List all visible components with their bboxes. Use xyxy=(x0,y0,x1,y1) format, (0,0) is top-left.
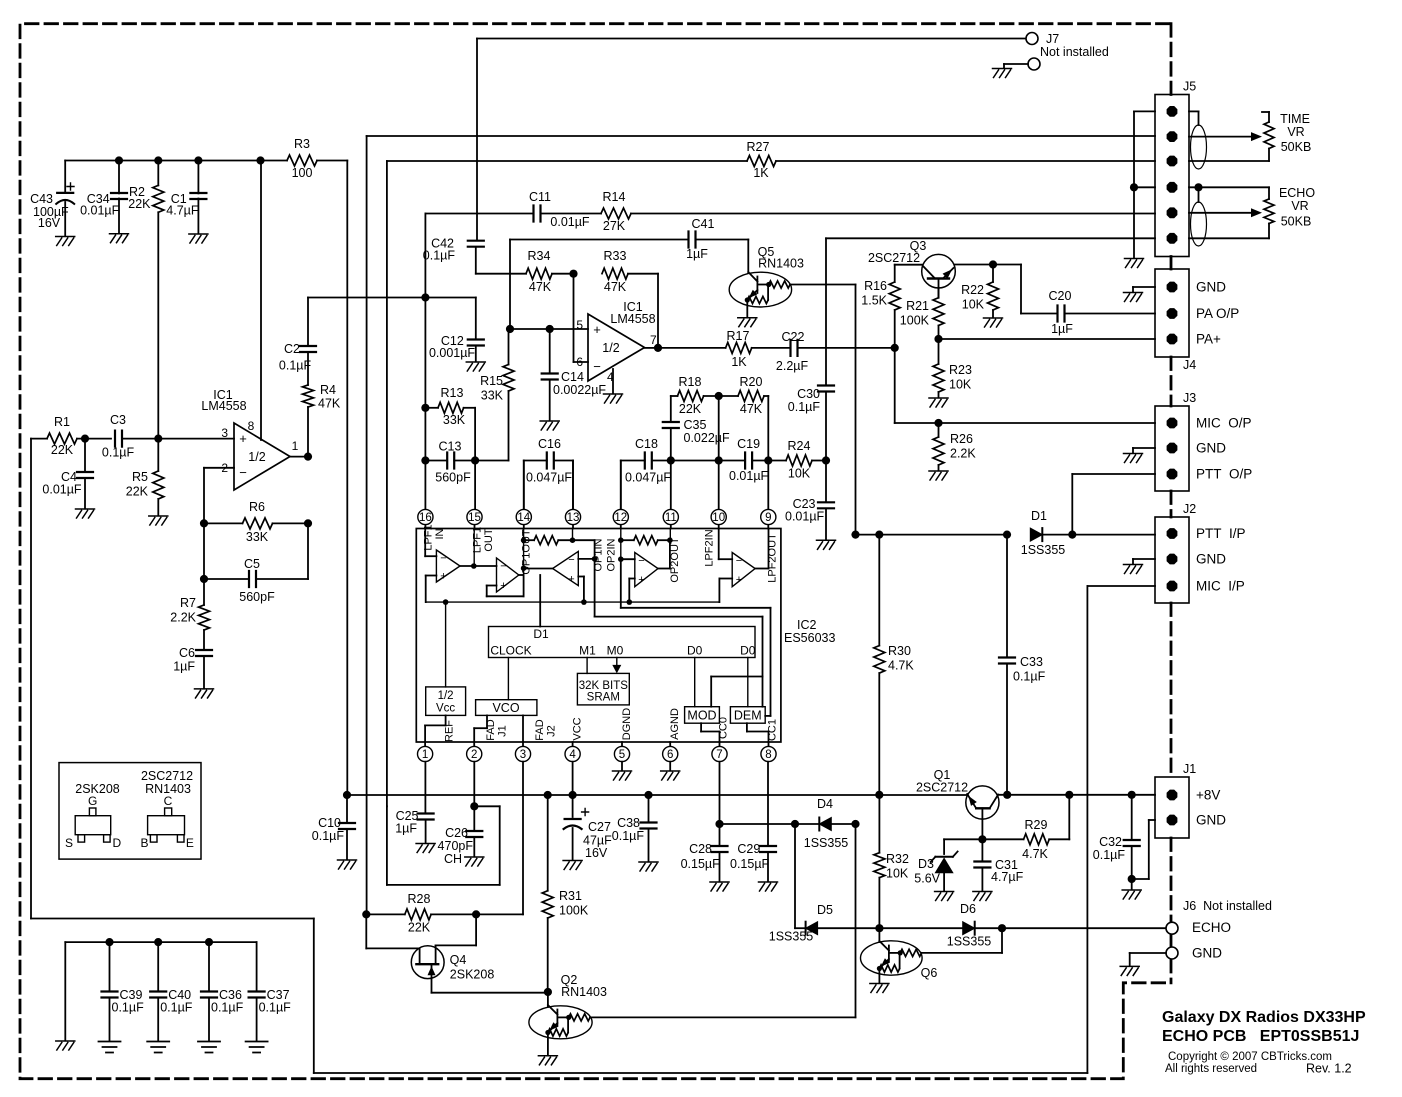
wire R22 top lead xyxy=(992,265,994,283)
junction Q5 internal base-R xyxy=(766,282,771,287)
wire C23 top lead xyxy=(825,461,827,503)
wire IC2 pin3 to R28 corner xyxy=(522,762,524,915)
svg-text:FAD: FAD xyxy=(485,719,497,740)
IC2 MOD box xyxy=(685,707,720,724)
svg-text:0.047µF: 0.047µF xyxy=(625,471,671,485)
wire node A to C12 xyxy=(425,297,475,299)
svg-text:FAD: FAD xyxy=(534,719,546,740)
wire D1 cathode lead xyxy=(1042,534,1072,536)
op-amp IC2 OP1buf triangle xyxy=(497,558,519,592)
wire J7 ground stub xyxy=(1003,64,1005,68)
svg-text:TIME: TIME xyxy=(1280,112,1310,126)
ground below C10 xyxy=(338,860,357,869)
resistor IC2 OP1 feedback xyxy=(534,536,558,545)
capacitor C14 xyxy=(542,374,558,380)
ground below Q6 xyxy=(870,984,889,993)
wire R27 left segment xyxy=(387,160,747,162)
ground below R5 xyxy=(149,516,168,525)
connector J3 pin MIC O/P xyxy=(1167,418,1178,429)
capacitor C37 0.1uF xyxy=(249,992,265,998)
svg-text:Q6: Q6 xyxy=(921,966,938,980)
svg-text:R24: R24 xyxy=(788,439,811,453)
ground below R26 xyxy=(929,471,948,480)
wire pin6 lead xyxy=(574,361,589,363)
wire D0 left to MOD xyxy=(694,658,696,707)
ground below C14 xyxy=(540,421,559,430)
wire C27 bottom lead xyxy=(572,828,574,860)
capacitor C27 (electrolytic) xyxy=(564,809,589,830)
wire J2 GND pin xyxy=(1133,558,1155,560)
resistor R26 2.2K xyxy=(933,437,944,465)
wire C42 bottom lead xyxy=(475,247,477,274)
wire to J3 PTT O/P xyxy=(1072,473,1155,475)
wire J3 GND stub xyxy=(1132,448,1134,453)
wire Q4 source to Q2 node xyxy=(432,992,548,994)
wire IC2 internal reference rail xyxy=(426,601,720,603)
wire R18/R20 junction down xyxy=(718,396,720,461)
wire C19 left lead xyxy=(719,460,745,462)
resistor R7 2.2K xyxy=(199,605,210,630)
svg-text:0.01µF: 0.01µF xyxy=(729,469,769,483)
wire J5 pin1 to ground return xyxy=(1134,110,1155,112)
svg-text:OP2OUT: OP2OUT xyxy=(669,537,681,583)
junction pin16 node / C13 xyxy=(421,456,429,464)
svg-text:C19: C19 xyxy=(737,437,760,451)
wire rail to half-Vcc box xyxy=(445,602,447,687)
wire IC2 pin1 stub xyxy=(424,742,426,746)
capacitor C43 (electrolytic) xyxy=(56,183,74,204)
wire IC2 pin4 stub xyxy=(572,742,574,746)
chassis ground bottom-left xyxy=(56,1041,75,1050)
wire C29 bottom lead xyxy=(767,852,769,881)
wire D4 line from pin7 xyxy=(720,823,820,825)
wire R28 right lead xyxy=(431,913,476,915)
junction +8V/R29 xyxy=(1065,791,1073,799)
wire Q2 emitter to ground xyxy=(547,1033,549,1055)
svg-text:1µF: 1µF xyxy=(395,822,417,836)
wire C22 to node xyxy=(798,347,895,349)
svg-text:GND: GND xyxy=(1196,552,1226,567)
wire R23 bottom lead xyxy=(938,392,940,397)
wire cable entry 2 xyxy=(1198,187,1200,202)
wire R18 left lead xyxy=(671,395,678,397)
ground below IC1b pin4 xyxy=(604,394,623,403)
resistor Q6 internal BE resistor xyxy=(879,965,899,972)
wire Q3 base to R21 xyxy=(938,288,940,298)
wire PTT O/P link xyxy=(1071,474,1073,535)
svg-text:0.1µF: 0.1µF xyxy=(423,249,456,263)
svg-text:15: 15 xyxy=(468,512,481,524)
wire IC2 pin8 stub xyxy=(768,742,770,746)
earth ground below C40 xyxy=(147,1042,169,1053)
wire J5 pin4 to ECHO top xyxy=(1189,186,1269,188)
wire R5 bottom lead xyxy=(157,499,159,515)
capacitor C34 xyxy=(111,193,127,199)
wire IC2 pin1 to C25 xyxy=(424,762,426,814)
ground below C6 xyxy=(195,689,214,698)
svg-text:22K: 22K xyxy=(128,197,151,211)
svg-text:B: B xyxy=(140,836,148,850)
wire C28 top lead xyxy=(719,824,721,846)
connector J7 pin circle xyxy=(1026,33,1038,45)
wire C32 top lead xyxy=(1131,795,1133,840)
earth ground below C37 xyxy=(246,1042,268,1053)
svg-text:AGND: AGND xyxy=(669,708,681,740)
IC2 pin 14 xyxy=(516,509,531,524)
svg-text:LPF1: LPF1 xyxy=(423,524,435,550)
wire C31 top lead xyxy=(981,839,983,861)
op-amp IC2 LPF2 triangle xyxy=(732,553,755,587)
ground below Q5 xyxy=(738,318,757,327)
wire PTT line xyxy=(856,534,1008,536)
wire C20 to J4 PA O/P xyxy=(1065,313,1156,315)
junction D4 anode / PTT net xyxy=(851,820,859,828)
svg-text:0.01µF: 0.01µF xyxy=(785,510,825,524)
cable group symbol (ECHO) xyxy=(1191,202,1207,246)
svg-text:R15: R15 xyxy=(480,374,503,388)
IC2 ES56033 body xyxy=(416,529,781,743)
connector J5 pin xyxy=(1167,106,1178,117)
transistor Q5 emitter arrow xyxy=(749,290,758,299)
svg-text:R22: R22 xyxy=(961,283,984,297)
wire to C20 xyxy=(1021,313,1058,315)
capacitor C41 1uF xyxy=(689,232,696,248)
svg-text:Rev. 1.2: Rev. 1.2 xyxy=(1306,1062,1352,1076)
wire Q6 internal link xyxy=(899,953,901,969)
wire OP2 output to pin11 xyxy=(658,540,670,568)
resistor Q6 internal base resistor xyxy=(900,949,921,956)
svg-text:C22: C22 xyxy=(782,330,805,344)
svg-text:J6 Not installed: J6 Not installed xyxy=(1183,899,1272,913)
ground below C25 xyxy=(416,844,435,853)
svg-text:R14: R14 xyxy=(603,190,626,204)
svg-text:Not installed: Not installed xyxy=(1040,45,1109,59)
ground below C38 xyxy=(639,862,658,871)
junction C22/R16/MIC-OP xyxy=(891,344,899,352)
wire Q3 emitter to R22 node xyxy=(955,264,993,266)
connector J2 pin MIC I/P xyxy=(1167,581,1178,592)
wire IC2 pin15 internal xyxy=(473,529,475,567)
svg-text:R29: R29 xyxy=(1025,818,1048,832)
op-amp IC1a triangle xyxy=(234,423,290,490)
junction C18/C35/pin11 xyxy=(667,456,675,464)
legend box (package pinouts) xyxy=(59,763,201,860)
junction +8V rail / C1 xyxy=(194,156,202,164)
wire J5 ground return xyxy=(1133,111,1135,257)
svg-text:J3: J3 xyxy=(1183,391,1196,405)
svg-text:4.7µF: 4.7µF xyxy=(991,870,1024,884)
wire IC2 pin13 internal xyxy=(572,529,574,541)
wire MIC O/P line to J3 xyxy=(895,422,1155,424)
svg-text:22K: 22K xyxy=(408,921,431,935)
resistor R3 100 xyxy=(287,155,317,166)
IC2 pin 8 xyxy=(761,746,776,761)
wire R30 top lead xyxy=(878,535,880,646)
svg-text:MIC O/P: MIC O/P xyxy=(1196,416,1252,431)
svg-text:C10: C10 xyxy=(318,816,341,830)
svg-text:CH: CH xyxy=(444,852,462,866)
wire C26 routing loop (FAD J1 net) xyxy=(387,806,500,885)
wire C39 bottom lead xyxy=(109,998,111,1042)
wire R15 to pin15 node xyxy=(475,460,508,462)
svg-text:SRAM: SRAM xyxy=(587,692,620,704)
wire C34 top lead xyxy=(118,161,120,194)
connector J7 ground pin circle xyxy=(1028,58,1040,70)
wire R31 top lead xyxy=(547,795,549,891)
svg-text:R28: R28 xyxy=(408,892,431,906)
svg-text:0.1µF: 0.1µF xyxy=(788,400,821,414)
ground below Q2 xyxy=(538,1056,557,1065)
svg-text:33K: 33K xyxy=(481,389,504,403)
svg-text:33K: 33K xyxy=(443,413,466,427)
junction pin16 node / R13 xyxy=(421,404,429,412)
wire C10 bottom lead xyxy=(346,829,348,859)
arrow ECHO wiper xyxy=(1251,208,1262,217)
svg-text:100: 100 xyxy=(292,166,313,180)
wire D5 branch down xyxy=(794,824,796,928)
IC2 VCO box xyxy=(476,700,537,716)
wire IC2 pin16 column xyxy=(424,298,426,510)
wire IC2 pin12 column top xyxy=(620,461,622,510)
svg-text:C11: C11 xyxy=(529,190,551,204)
svg-text:R13: R13 xyxy=(441,386,464,400)
capacitor C18 plates xyxy=(645,453,652,469)
svg-text:C27: C27 xyxy=(588,820,611,834)
connector J2 body xyxy=(1155,517,1189,603)
svg-text:R33: R33 xyxy=(604,249,627,263)
wire R28 node to pin3 column xyxy=(476,913,523,915)
wire pin2 down to feedback xyxy=(203,468,205,524)
svg-text:LPF2OUT: LPF2OUT xyxy=(767,533,779,583)
svg-text:C18: C18 xyxy=(635,437,658,451)
transistor Q3 internals xyxy=(923,266,953,298)
wire R29 to +8V xyxy=(1068,795,1070,840)
wire C38 top lead xyxy=(648,795,650,823)
wire OP1 plus to rail xyxy=(578,577,584,603)
wire R33 right lead xyxy=(628,273,658,275)
resistor R28 22K xyxy=(405,909,431,920)
resistor IC2 OP2 feedback xyxy=(634,536,658,545)
svg-text:2SK208: 2SK208 xyxy=(75,782,120,796)
IC2 pin 4 xyxy=(565,746,580,761)
capacitor C42 xyxy=(468,241,484,247)
svg-text:VR: VR xyxy=(1287,125,1304,139)
svg-text:+: + xyxy=(593,322,601,337)
wire LPF2 plus to rail end xyxy=(719,579,732,603)
svg-text:+: + xyxy=(638,574,644,586)
junction +8V rail / C34 xyxy=(115,156,123,164)
wire R27 to J5 pin3 xyxy=(776,160,1155,162)
svg-text:R6: R6 xyxy=(249,500,265,514)
resistor Q2 internal base resistor xyxy=(569,1014,590,1021)
wire R1 to C3 xyxy=(77,438,111,440)
svg-text:33K: 33K xyxy=(246,530,269,544)
connector J1 pin +8V xyxy=(1167,790,1178,801)
ground below C23 xyxy=(817,540,836,549)
resistor R23 10K xyxy=(933,364,944,392)
svg-text:C3: C3 xyxy=(110,413,126,427)
svg-text:−: − xyxy=(568,554,574,566)
connector J3 pin GND xyxy=(1167,443,1178,454)
junction R31/Q4 source/Q2 xyxy=(544,988,552,996)
svg-text:0.047µF: 0.047µF xyxy=(526,471,572,485)
wire R27 net vertical xyxy=(386,161,388,806)
svg-text:C32: C32 xyxy=(1099,835,1122,849)
op-amp IC2 OP2 triangle xyxy=(635,553,658,587)
wire D0 right to DEM xyxy=(747,658,749,707)
wire OP1buf feedback loop xyxy=(487,575,524,596)
svg-text:8: 8 xyxy=(248,419,255,433)
svg-text:ECHO: ECHO xyxy=(1192,920,1231,935)
wire C41 right lead xyxy=(696,239,749,241)
svg-text:560pF: 560pF xyxy=(239,590,275,604)
svg-text:Galaxy DX Radios DX33HP: Galaxy DX Radios DX33HP xyxy=(1162,1009,1366,1026)
svg-text:R31: R31 xyxy=(559,889,582,903)
wire R6 right lead xyxy=(273,522,309,524)
wire R28 left lead xyxy=(366,913,405,915)
resistor R29 4.7K xyxy=(1024,834,1050,845)
svg-text:2SK208: 2SK208 xyxy=(450,968,495,982)
wire IC2 pin4 to rail xyxy=(572,762,574,795)
svg-text:R18: R18 xyxy=(679,375,702,389)
wire R29 left lead xyxy=(982,838,1023,840)
capacitor C39 0.1uF xyxy=(102,992,118,998)
wire R17 to C22 xyxy=(752,347,791,349)
svg-text:2SC2712: 2SC2712 xyxy=(141,769,193,783)
svg-text:50KB: 50KB xyxy=(1281,140,1312,154)
svg-text:0.15µF: 0.15µF xyxy=(730,857,770,871)
ground below C12 xyxy=(466,362,485,371)
resistor R24 10K xyxy=(786,455,812,466)
wire C42 to R34 xyxy=(476,273,526,275)
svg-text:−: − xyxy=(500,561,506,573)
wire R18 right lead xyxy=(704,395,719,397)
wire J5 pin4 to ground return xyxy=(1134,186,1155,188)
junction rail/C36 xyxy=(205,938,213,946)
svg-text:C30: C30 xyxy=(797,387,820,401)
transistor Q2 RN1403 envelope xyxy=(529,1006,592,1039)
wire net TIME-wiper to J5 pin2 xyxy=(367,135,1155,137)
svg-text:C16: C16 xyxy=(538,437,561,451)
wire IC2 pin10 internal xyxy=(719,529,733,560)
IC2 pin 6 xyxy=(663,746,678,761)
wire ground cap rail xyxy=(65,941,256,943)
svg-text:Q4: Q4 xyxy=(450,953,467,967)
wire J7 signal xyxy=(477,38,1026,40)
wire C26 bottom lead xyxy=(473,837,475,856)
junction R18/R20 xyxy=(715,392,723,400)
wire D5 cathode lead xyxy=(795,927,806,929)
wire R26 top lead xyxy=(938,423,940,437)
svg-text:OP2IN: OP2IN xyxy=(606,538,618,571)
IC2 pin 5 xyxy=(614,746,629,761)
svg-text:4: 4 xyxy=(569,749,576,761)
wire C33 bottom lead xyxy=(1006,664,1008,795)
svg-text:0.01µF: 0.01µF xyxy=(550,215,590,229)
ground below R22 xyxy=(984,318,1003,327)
wire IC2 pin6 to ground xyxy=(669,762,671,770)
wire C36 bottom lead xyxy=(208,998,210,1042)
svg-text:VR: VR xyxy=(1291,199,1308,213)
ground below C32 xyxy=(1122,890,1141,899)
svg-text:16: 16 xyxy=(419,512,432,524)
svg-text:4.7K: 4.7K xyxy=(888,659,914,673)
wire Q4 drain path xyxy=(436,914,477,964)
wire IC2 pin11 column xyxy=(670,428,672,509)
wire net TIME-wiper vertical xyxy=(366,136,368,914)
wire pin11 to pin10 link xyxy=(671,460,719,462)
wire C14 bottom lead xyxy=(549,380,551,421)
capacitor C11 xyxy=(534,206,541,222)
svg-text:C33: C33 xyxy=(1020,655,1043,669)
capacitor C16 plates xyxy=(547,453,554,469)
earth ground below C39 xyxy=(99,1042,121,1053)
junction Q2 internal base-R xyxy=(566,1015,571,1020)
ground below D3 xyxy=(935,892,954,901)
junction pin14/resistor xyxy=(521,537,527,543)
svg-text:4.7K: 4.7K xyxy=(1022,847,1048,861)
svg-text:C13: C13 xyxy=(439,440,462,454)
wire C10 top lead xyxy=(346,795,348,823)
wire R15 top lead xyxy=(508,329,510,365)
wire IC2 pin14 internal xyxy=(523,529,525,576)
wire D5 anode lead xyxy=(818,927,880,929)
wire IC2 pin2 to C26 node xyxy=(473,762,475,807)
IC2 pin 11 xyxy=(663,509,678,524)
wire R32 top lead xyxy=(878,795,880,853)
IC2 pin 13 xyxy=(565,509,580,524)
ground at J2 xyxy=(1124,565,1143,574)
wire J5 pin6 to ECHO bottom xyxy=(1189,237,1269,239)
svg-text:VCO: VCO xyxy=(492,701,519,715)
wire output down to C5 node xyxy=(307,523,309,579)
wire C11 left lead xyxy=(425,213,533,215)
svg-text:C28: C28 xyxy=(689,842,712,856)
wire R21 bottom lead xyxy=(938,326,940,340)
wire R5 top lead xyxy=(157,439,159,471)
legend 2SC2712 package xyxy=(148,808,185,842)
wire R6 left lead xyxy=(204,522,243,524)
ground below C27 xyxy=(563,861,582,870)
capacitor C29 xyxy=(760,846,776,852)
wire C13 left lead xyxy=(425,460,447,462)
svg-text:1K: 1K xyxy=(731,355,747,369)
capacitor C35 xyxy=(663,422,679,428)
svg-text:D6: D6 xyxy=(960,902,976,916)
ground below C31 xyxy=(973,892,992,901)
wire C6 bottom lead xyxy=(203,656,205,688)
svg-text:1/2: 1/2 xyxy=(248,450,265,464)
resistor R16 1.5K xyxy=(889,282,900,310)
svg-text:S: S xyxy=(65,836,73,850)
wire LPF1 + input loop xyxy=(426,576,437,603)
svg-text:−: − xyxy=(638,555,644,567)
svg-text:R4: R4 xyxy=(320,383,336,397)
transistor Q6 RN1403 envelope xyxy=(861,941,923,975)
connector J5 pin xyxy=(1167,156,1178,167)
svg-text:J1: J1 xyxy=(497,725,509,737)
junction Q1 base / R29 / C31 xyxy=(978,835,986,843)
wire R14 to J5 pin5 xyxy=(631,213,1155,215)
wire R20 to pin9 node xyxy=(767,396,769,461)
IC2 inner logic box xyxy=(489,627,756,658)
diode D4 1SS355 xyxy=(819,818,831,831)
junction C32/J1 GND xyxy=(1128,875,1136,883)
connector J4 body xyxy=(1155,269,1189,357)
capacitor C28 xyxy=(712,846,728,852)
svg-text:PA+: PA+ xyxy=(1196,332,1221,347)
wire R29 right lead xyxy=(1049,838,1069,840)
